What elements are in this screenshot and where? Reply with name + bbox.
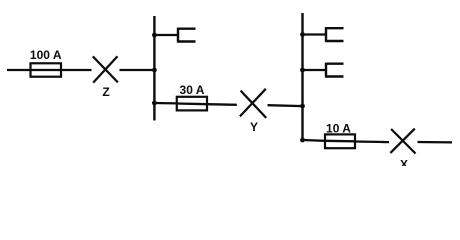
svg-text:Y: Y (250, 120, 258, 134)
node: B1 junction at outlet branch (152, 33, 157, 38)
busbar B1 (panel 1 bus) (153, 16, 155, 121)
wire: switch X to load tail (418, 141, 453, 144)
wire: busbar B2 to outlet E3 (303, 69, 327, 71)
fuse F2 (30 A) with through-wire (177, 97, 207, 111)
switch X (disconnect, X symbol) (390, 129, 415, 154)
node: B2 junction at feeder from switch Y (300, 104, 305, 109)
svg-text:100 A: 100 A (30, 48, 62, 62)
node: B2 junction at outlet E2 branch (300, 32, 305, 37)
wire: busbar B1 to fuse F2 (154, 102, 177, 105)
wire: fuse F3 to switch X (355, 140, 389, 143)
node: B1 junction at 30 A feeder (152, 101, 157, 106)
wire: switch Z to busbar B1 (120, 69, 155, 71)
switch Z (disconnect, X symbol) (93, 56, 118, 82)
svg-text:X: X (400, 158, 408, 167)
wire: fuse F1 to switch Z (61, 69, 92, 71)
wire: busbar B1 to outlet E1 (154, 34, 178, 36)
outlet E2 (receptacle symbol) (326, 27, 344, 42)
wire: supply feed into fuse F1 (7, 69, 31, 71)
wire: switch Y to busbar B2 (268, 104, 303, 107)
outlet E3 (receptacle symbol) (326, 63, 344, 78)
svg-text:10 A: 10 A (326, 122, 351, 136)
fuse F3 (10 A) with through-wire (325, 134, 355, 148)
outlet E1 (receptacle symbol) (178, 28, 196, 43)
wire: busbar B2 to fuse F3 (303, 139, 326, 142)
wire: busbar B2 to outlet E2 (303, 33, 327, 35)
svg-text:30 A: 30 A (180, 83, 205, 97)
wire: fuse F2 to switch Y (207, 103, 237, 106)
svg-text:Z: Z (102, 85, 109, 99)
node: B2 junction at outlet E3 branch (300, 68, 305, 73)
busbar B2 (panel 2 bus) (301, 13, 303, 140)
fuse F1 (100 A) with through-wire (31, 63, 62, 76)
switch Y (disconnect, X symbol) (240, 89, 266, 118)
node: B2 corner junction at 10 A feeder (300, 138, 305, 143)
node: B1 junction at main feed (152, 68, 157, 73)
